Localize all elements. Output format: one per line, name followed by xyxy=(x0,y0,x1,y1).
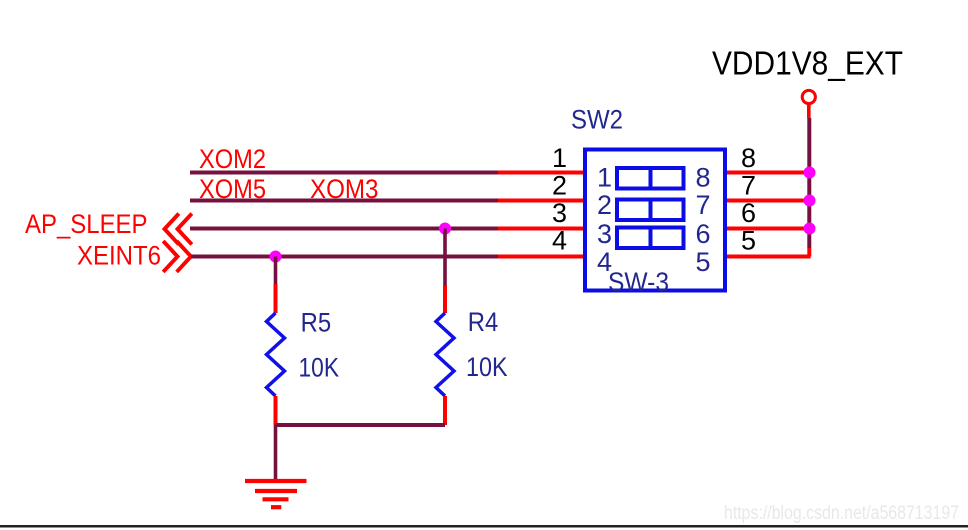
svg-text:1: 1 xyxy=(552,143,567,173)
junction dot bus row2 xyxy=(804,195,816,207)
svg-text:SW2: SW2 xyxy=(571,105,623,135)
junction dot bus row3 xyxy=(804,223,816,235)
switch position rectangle row1 xyxy=(617,168,684,189)
junction dot wire3 at R4 xyxy=(439,223,451,235)
switch position rectangle row3 xyxy=(617,228,684,249)
wire row3 red pin stub to SW2 pin3 xyxy=(498,227,586,231)
svg-text:3: 3 xyxy=(552,198,567,228)
pin number 3 outside xyxy=(552,198,567,228)
svg-text:1: 1 xyxy=(597,163,612,193)
svg-text:VDD1V8_EXT: VDD1V8_EXT xyxy=(712,46,903,83)
wire R5 maroon drop from wire4 xyxy=(274,257,278,285)
pin number 7 outside xyxy=(741,171,756,201)
switch SW2 body outline xyxy=(585,150,725,291)
junction dot wire4 at R5 xyxy=(270,251,282,263)
svg-text:2: 2 xyxy=(597,190,612,220)
svg-text:7: 7 xyxy=(741,171,756,201)
pin name 2 inside xyxy=(597,190,612,220)
switch SW2 type label SW-3 xyxy=(608,267,669,297)
resistor R4 value 10K xyxy=(466,352,508,382)
wire bottom horizontal between R5 and R4 xyxy=(276,423,446,427)
svg-text:AP_SLEEP: AP_SLEEP xyxy=(25,209,148,239)
wire red stub below terminal circle xyxy=(807,104,811,118)
svg-text:10K: 10K xyxy=(299,352,340,382)
wire row2 red pin stub to SW2 pin2 xyxy=(498,199,586,203)
svg-text:10K: 10K xyxy=(466,352,508,382)
wire SW2 pin7 to bus xyxy=(725,199,811,203)
wire R4 maroon drop from wire3 xyxy=(443,229,447,287)
wire row1 XOM2 maroon segment xyxy=(190,171,498,175)
resistor R4 designator xyxy=(468,307,499,337)
switch SW2 designator xyxy=(571,105,623,135)
wire red corner at bottom of vertical bus xyxy=(807,248,811,257)
net label XOM2 xyxy=(199,144,266,174)
pin number 5 outside xyxy=(741,226,756,256)
watermark text xyxy=(724,503,959,524)
net label XOM5 xyxy=(199,174,266,204)
power port terminal circle xyxy=(802,90,815,103)
wire row4 red pin stub to SW2 pin4 xyxy=(498,255,586,259)
off-page connector label AP_SLEEP xyxy=(25,209,148,239)
wire row4 XEINT6 maroon segment xyxy=(191,255,498,259)
switch position rectangle row2 xyxy=(617,200,684,221)
svg-text:5: 5 xyxy=(696,247,711,277)
wire SW2 pin5 to bus xyxy=(725,255,811,259)
svg-text:4: 4 xyxy=(552,226,567,256)
pin number 1 outside xyxy=(552,143,567,173)
off-page connector chevrons XEINT6 xyxy=(165,243,192,271)
bottom separator line xyxy=(0,525,968,528)
pin number 8 outside xyxy=(741,143,756,173)
resistor R4 top red pin xyxy=(443,286,447,313)
svg-text:6: 6 xyxy=(696,219,711,249)
wire row1 red pin stub to SW2 pin1 xyxy=(498,171,586,175)
svg-text:5: 5 xyxy=(741,226,756,256)
resistor R5 designator xyxy=(301,307,332,337)
wire row3 AP_SLEEP maroon segment xyxy=(190,227,498,231)
svg-text:2: 2 xyxy=(552,171,567,201)
power port VDD1V8_EXT label xyxy=(712,46,903,83)
wire SW2 pin8 to bus xyxy=(725,171,811,175)
svg-text:R5: R5 xyxy=(301,307,332,337)
junction dot bus row1 xyxy=(804,167,816,179)
svg-text:8: 8 xyxy=(741,143,756,173)
pin name 7 inside xyxy=(696,190,711,220)
wire SW2 pin6 to bus xyxy=(725,227,811,231)
resistor R5 top red pin xyxy=(274,284,278,313)
resistor R4 zigzag body xyxy=(436,313,454,396)
svg-text:3: 3 xyxy=(597,219,612,249)
net label XOM3 xyxy=(310,174,379,204)
wire ground stem xyxy=(274,425,278,479)
wire vertical bus VDD1V8_EXT net xyxy=(807,118,811,248)
pin name 6 inside xyxy=(696,219,711,249)
pin name 5 inside xyxy=(696,247,711,277)
pin name 1 inside xyxy=(597,163,612,193)
pin number 6 outside xyxy=(741,198,756,228)
pin name 4 inside xyxy=(597,247,612,277)
svg-text:R4: R4 xyxy=(468,307,499,337)
off-page connector chevrons AP_SLEEP xyxy=(165,215,191,243)
pin number 4 outside xyxy=(552,226,567,256)
svg-text:8: 8 xyxy=(696,163,711,193)
svg-text:SW-3: SW-3 xyxy=(608,267,669,297)
svg-text:https://blog.csdn.net/a5687131: https://blog.csdn.net/a568713197 xyxy=(724,503,959,524)
off-page connector label XEINT6 xyxy=(77,240,161,270)
svg-text:XEINT6: XEINT6 xyxy=(77,240,161,270)
resistor R5 bottom red pin xyxy=(274,396,278,425)
resistor R5 zigzag body xyxy=(267,313,285,396)
ground symbol xyxy=(245,481,307,507)
pin name 8 inside xyxy=(696,163,711,193)
resistor R5 value 10K xyxy=(299,352,340,382)
svg-text:6: 6 xyxy=(741,198,756,228)
wire row2 XOM5/XOM3 maroon segment xyxy=(190,199,498,203)
svg-text:7: 7 xyxy=(696,190,711,220)
pin name 3 inside xyxy=(597,219,612,249)
svg-text:XOM2: XOM2 xyxy=(199,144,266,174)
resistor R4 bottom red pin xyxy=(443,396,447,425)
pin number 2 outside xyxy=(552,171,567,201)
svg-text:4: 4 xyxy=(597,247,612,277)
